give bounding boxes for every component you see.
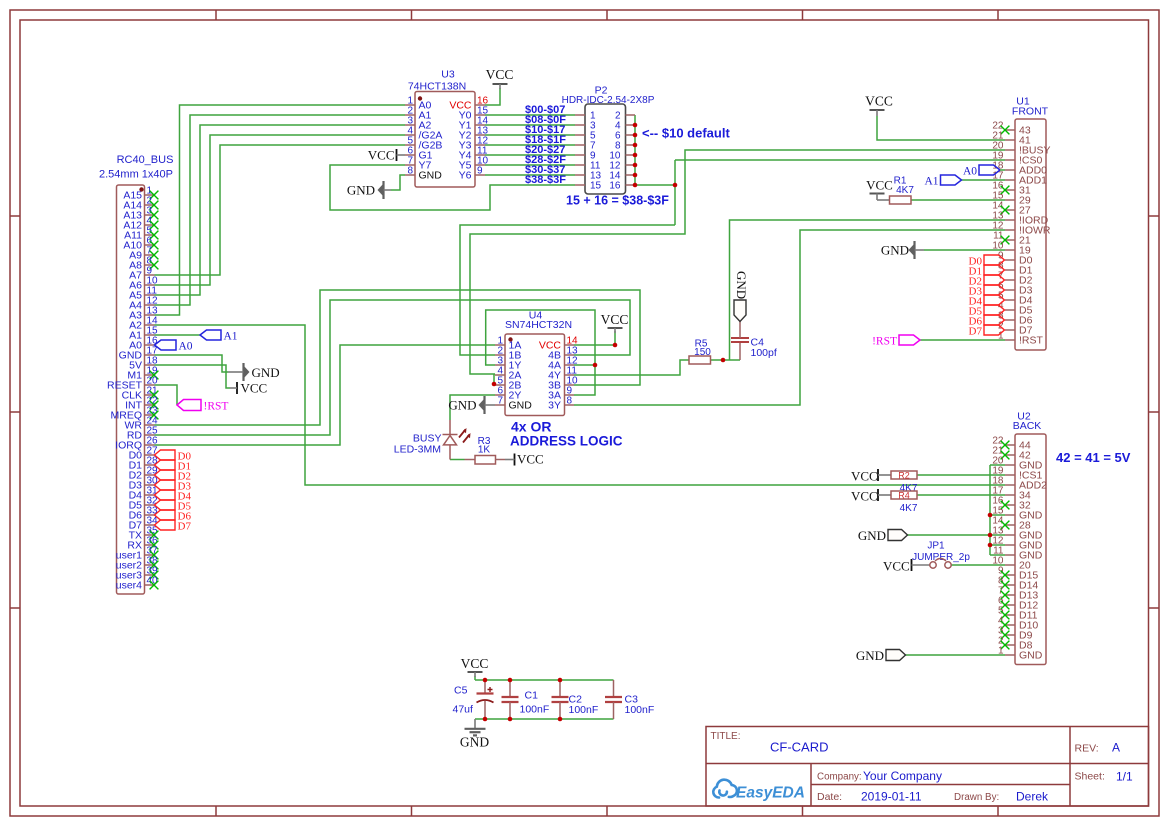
U2 pin 7 D13 — [1005, 594, 1015, 596]
svg-text:!RST: !RST — [1019, 335, 1044, 347]
RC40 pin 39 user3 — [145, 574, 155, 576]
svg-text:user4: user4 — [116, 580, 142, 592]
P2 pin 16 — [626, 184, 636, 186]
wire U2 GND bus stub pin12 — [990, 544, 1005, 546]
net flag D6 at RC40 — [155, 510, 176, 520]
svg-text:7: 7 — [497, 396, 503, 407]
svg-text:SN74HCT32N: SN74HCT32N — [505, 319, 572, 331]
svg-text:BACK: BACK — [1013, 420, 1042, 432]
U4 pin 6 2Y — [495, 394, 505, 396]
svg-text:!RST: !RST — [872, 336, 897, 348]
U2 pin 1 GND — [1005, 654, 1015, 656]
net flag D0 at RC40 — [155, 450, 176, 460]
U1 pin 8 D1 — [1005, 269, 1015, 271]
U2 pin 4 D10 — [1005, 624, 1015, 626]
RC40 pin 15 A1 — [145, 334, 155, 336]
svg-text:R2: R2 — [898, 470, 910, 480]
U3 pin 14 Y1 — [475, 124, 485, 126]
wire A7 to U3 /G2B — [155, 145, 406, 275]
U2 pin 10 20 — [1005, 564, 1015, 566]
svg-text:1K: 1K — [478, 445, 491, 456]
IC U4 SN74HCT32N body — [505, 334, 565, 416]
U1 pin 18 ADD0 — [1005, 169, 1015, 171]
U1 pin 17 ADD1 — [1005, 179, 1015, 181]
U1 pin 14 27 — [1005, 209, 1015, 211]
capacitor C2 100nF — [559, 680, 561, 697]
svg-text:Date:: Date: — [817, 791, 842, 803]
ground symbol at RC40 pin17 — [242, 363, 244, 381]
svg-text:$38-$3F: $38-$3F — [525, 174, 566, 186]
svg-text:RC40_BUS: RC40_BUS — [117, 154, 174, 166]
svg-text:VCC: VCC — [866, 178, 893, 193]
wire R5 to C4 node — [711, 359, 741, 361]
wire A5 to U3 A2 — [155, 125, 406, 295]
wire A1 to flag — [155, 334, 201, 336]
capacitor C4 100pf — [739, 342, 741, 360]
P2 pin 5 — [575, 134, 585, 136]
P2 pin 11 — [575, 164, 585, 166]
svg-text:16: 16 — [609, 181, 621, 192]
wire net !CS0 vertical at P2 — [674, 160, 676, 225]
RC40 pin 31 D4 — [145, 494, 155, 496]
RC40 pin 13 A3 — [145, 314, 155, 316]
power flag VCC at RC40 pin18 — [236, 382, 238, 394]
svg-text:U3: U3 — [441, 69, 455, 81]
U1 pin 6 D3 — [1005, 289, 1015, 291]
svg-text:VCC: VCC — [241, 381, 268, 396]
ground symbol at U4 pin7 — [483, 396, 485, 414]
connector J? RC40_BUS body — [117, 185, 145, 594]
U2 pin 3 D9 — [1005, 634, 1015, 636]
svg-text:GND: GND — [509, 400, 533, 412]
wire RC40 5V pin18 to VCC — [155, 365, 231, 388]
svg-text:100nF: 100nF — [569, 704, 599, 716]
net flag D7 at U1 — [984, 325, 1005, 335]
junction dots capacitor rails — [483, 678, 488, 683]
svg-text:Your Company: Your Company — [863, 769, 942, 783]
U4 pin 14 VCC — [565, 344, 575, 346]
svg-text:D7: D7 — [969, 326, 983, 338]
svg-text:VCC: VCC — [883, 559, 910, 574]
wire U3 Y2 to P2 pin5 ($10-$17) — [485, 134, 575, 136]
RC40 pin 12 A4 — [145, 304, 155, 306]
U3 pin 3 A2 — [405, 124, 415, 126]
U4 pin 8 3Y — [565, 404, 575, 406]
U1 pin 20 !BUSY — [1005, 149, 1015, 151]
U4 pin 13 4B — [565, 354, 575, 356]
RC40 pin 33 D6 — [145, 514, 155, 516]
P2 pin 10 — [626, 154, 636, 156]
svg-text:GND: GND — [460, 735, 489, 750]
wire VCC to U4 pin14 — [574, 331, 615, 345]
U3 pin 1 A0 — [405, 104, 415, 106]
net flag D4 at RC40 — [155, 490, 176, 500]
net flag D6 at U1 — [984, 315, 1005, 325]
ground net flag at U2 GND bus — [888, 530, 908, 541]
P2 pin 13 — [575, 174, 585, 176]
svg-text:4K7: 4K7 — [900, 503, 918, 514]
svg-text:8: 8 — [407, 166, 413, 177]
U3 pin 4 /G2A — [405, 134, 415, 136]
RC40 pin 32 D5 — [145, 504, 155, 506]
U1 pin 5 D4 — [1005, 299, 1015, 301]
wire U2 GND bus stub pin20 — [990, 464, 1005, 466]
RC40 pin 10 A6 — [145, 284, 155, 286]
wire U4 4Y to R5 — [574, 360, 689, 375]
net flag A1 at U1 pin17 — [941, 175, 962, 185]
svg-text:15 + 16 = $38-$3F: 15 + 16 = $38-$3F — [566, 194, 669, 208]
svg-text:1: 1 — [998, 646, 1004, 657]
svg-text:9: 9 — [477, 166, 483, 177]
wire U3 Y6 to P2 pin13 ($30-$37) — [485, 174, 575, 176]
wire RESET to !RST flag — [155, 385, 178, 405]
RC40 pin 21 CLK — [145, 394, 155, 396]
net flag A1 at RC40 pin15 — [200, 330, 221, 340]
P2 pin 9 — [575, 154, 585, 156]
wire net !CS0 to U1 pin19 — [675, 159, 1005, 161]
junction R5-C4 node — [721, 358, 726, 363]
wire U4 4A stub join — [574, 364, 595, 366]
power flag VCC at U3 pin6 G1 — [396, 149, 398, 161]
RC40 pin 35 TX — [145, 534, 155, 536]
net flag A0 at RC40 pin16 — [155, 340, 177, 350]
RC40 pin 26 IORQ — [145, 444, 155, 446]
svg-text:GND: GND — [856, 648, 884, 663]
svg-text:HDR-IDC-2.54-2X8P: HDR-IDC-2.54-2X8P — [562, 95, 655, 106]
RC40 pin 16 A0 — [145, 344, 155, 346]
connector U2 BACK body — [1015, 434, 1046, 665]
svg-text:GND: GND — [1019, 650, 1043, 662]
RC40 pin 5 A11 — [145, 234, 155, 236]
U1 pin 21 41 — [1005, 139, 1015, 141]
wire R4 to U2 pin17 — [917, 494, 1005, 496]
wire U2 GND bus stub pin11 — [990, 554, 1005, 556]
svg-text:100nF: 100nF — [520, 704, 550, 716]
wire capacitor bank top rail — [475, 679, 614, 681]
U3 pin 7 Y7 — [405, 164, 415, 166]
wire P2 right-side bus — [635, 115, 675, 185]
RC40 pin 2 A14 — [145, 204, 155, 206]
U4 pin 10 3B — [565, 384, 575, 386]
wire U2 GND bus vertical — [989, 465, 991, 555]
U2 pin 12 GND — [1005, 544, 1015, 546]
U3 pin 13 Y2 — [475, 134, 485, 136]
wire net !IORD C4 node to U1 pin13 — [730, 220, 1006, 360]
svg-text:ADDRESS LOGIC: ADDRESS LOGIC — [510, 434, 623, 449]
svg-text:100nF: 100nF — [625, 704, 655, 716]
svg-text:JP1: JP1 — [927, 541, 945, 552]
U2 pin 11 GND — [1005, 554, 1015, 556]
svg-text:C1: C1 — [525, 690, 539, 702]
wire U3 Y3 to P2 pin7 ($18-$1F) — [485, 144, 575, 146]
wire RC40 GND pin17 — [155, 355, 229, 372]
U1 pin 19 !CS0 — [1005, 159, 1015, 161]
wire A1 flag to U1 pin17 — [962, 179, 1006, 181]
wire R1 to U1 pin15 — [911, 199, 1005, 201]
U2 pin 13 GND — [1005, 534, 1015, 536]
svg-text:FRONT: FRONT — [1012, 106, 1049, 118]
svg-text:Drawn By:: Drawn By: — [954, 792, 999, 803]
svg-text:2.54mm 1x40P: 2.54mm 1x40P — [99, 169, 173, 181]
svg-text:4x OR: 4x OR — [511, 419, 551, 435]
junction at P2 pin16 net !CS0 — [673, 183, 678, 188]
connector P2 HDR-IDC-2.54-2X8P body — [585, 104, 626, 194]
svg-text:8: 8 — [567, 396, 573, 407]
U4 pin 2 1B — [495, 354, 505, 356]
svg-text:TITLE:: TITLE: — [711, 731, 741, 742]
U3 pin 10 Y5 — [475, 164, 485, 166]
RC40 pin 24 WR — [145, 424, 155, 426]
RC40 pin 34 D7 — [145, 524, 155, 526]
U4 pin 12 4A — [565, 364, 575, 366]
svg-text:VCC: VCC — [517, 452, 544, 467]
RC40 pin 22 INT — [145, 404, 155, 406]
wire GND to U1 pin10 — [924, 249, 1005, 251]
wire U3 Y1 to P2 pin3 ($08-$0F) — [485, 124, 575, 126]
RC40 pin 25 RD — [145, 434, 155, 436]
wire U3 Y4 to P2 pin9 ($20-$27) — [485, 154, 575, 156]
U2 pin 8 D14 — [1005, 584, 1015, 586]
wire VCC to U3 pin16 — [485, 88, 500, 105]
P2 pin 2 — [626, 114, 636, 116]
P2 pin 3 — [575, 124, 585, 126]
net flag D2 at U1 — [984, 275, 1005, 285]
U1 pin 22 43 — [1005, 129, 1015, 131]
U1 pin 16 31 — [1005, 189, 1015, 191]
svg-text:Derek: Derek — [1016, 790, 1049, 804]
net flag D7 at RC40 — [155, 520, 176, 530]
U3 pin 11 Y4 — [475, 154, 485, 156]
RC40 pin 7 A9 — [145, 254, 155, 256]
svg-text:15: 15 — [590, 181, 602, 192]
RC40 pin 27 D0 — [145, 454, 155, 456]
net flag D0 at U1 — [984, 255, 1005, 265]
U4 pin 5 2B — [495, 384, 505, 386]
U3 pin 9 Y6 — [475, 174, 485, 176]
U1 pin 4 D5 — [1005, 309, 1015, 311]
net flag D2 at RC40 — [155, 470, 176, 480]
U3 pin 5 /G2B — [405, 144, 415, 146]
svg-text:100pf: 100pf — [751, 347, 777, 359]
wire net ADD2 from A2 to U2 pin18 — [155, 325, 1006, 485]
wire U3 Y5 to P2 pin11 ($28-$2F) — [485, 164, 575, 166]
U1 pin 10 19 — [1005, 249, 1015, 251]
U4 pin 7 GND — [495, 404, 505, 406]
RC40 pin 36 RX — [145, 544, 155, 546]
U3 pin 2 A1 — [405, 114, 415, 116]
net flag D3 at U1 — [984, 285, 1005, 295]
svg-text:VCC: VCC — [851, 489, 878, 504]
svg-text:Y6: Y6 — [459, 170, 472, 182]
ground net flag at C4 — [734, 300, 746, 322]
RC40 pin 4 A12 — [145, 224, 155, 226]
RC40 pin 18 5V — [145, 364, 155, 366]
U4 pin 11 4Y — [565, 374, 575, 376]
svg-text:CF-CARD: CF-CARD — [770, 740, 829, 755]
RC40 pin 3 A13 — [145, 214, 155, 216]
capacitor C5 47uf polarized — [484, 680, 486, 694]
U3 pin 6 G1 — [405, 154, 415, 156]
U2 pin 2 D8 — [1005, 644, 1015, 646]
svg-text:GND: GND — [881, 243, 909, 258]
net flag !RST at RC40 — [177, 400, 201, 411]
U2 pin 5 D11 — [1005, 614, 1015, 616]
P2 pin 15 — [575, 184, 585, 186]
junction U4 VCC node — [613, 343, 618, 348]
wire U4 2Y to LED anode — [450, 395, 495, 420]
RC40 pin 38 user2 — [145, 564, 155, 566]
RC40 pin 19 M1 — [145, 374, 155, 376]
RC40 pin 28 D1 — [145, 464, 155, 466]
svg-text:A1: A1 — [924, 176, 938, 188]
net flag A0 at U1 pin18 — [979, 165, 1000, 175]
U2 pin 15 GND — [1005, 514, 1015, 516]
wire VCC stem cap bank — [474, 676, 476, 680]
U4 pin1 marker — [508, 337, 512, 341]
border zone ticks left — [10, 215, 20, 217]
wire U4 1Y to 4A and 3A — [486, 310, 595, 395]
wire !RST flag to U1 pin1 — [920, 339, 1005, 341]
P2 pin 1 — [575, 114, 585, 116]
U1 pin 11 21 — [1005, 239, 1015, 241]
U1 pin 1 !RST — [1005, 339, 1015, 341]
P2 pin 4 — [626, 124, 636, 126]
RC40 pin 14 A2 — [145, 324, 155, 326]
RC40 pin 20 RESET — [145, 384, 155, 386]
U2 pin 14 28 — [1005, 524, 1015, 526]
U2 pin 6 D12 — [1005, 604, 1015, 606]
border zone ticks right — [1149, 215, 1160, 217]
svg-text:A: A — [1112, 741, 1120, 755]
svg-text:R4: R4 — [898, 490, 910, 500]
wire JP1 to U2 pin10 — [952, 564, 1006, 566]
svg-text:47uf: 47uf — [453, 704, 474, 716]
U3 pin 15 Y0 — [475, 114, 485, 116]
wire U3 Y0 to P2 pin1 ($00-$07) — [485, 114, 575, 116]
svg-text:!RST: !RST — [204, 401, 229, 413]
ground net flag at U2 pin1 — [886, 650, 906, 661]
svg-text:A0: A0 — [963, 166, 977, 178]
wire net !BUSY U1 pin20 to U4 2A/2B — [470, 150, 1005, 374]
junction dots U2 GND bus — [988, 513, 993, 518]
U2 pin 9 D15 — [1005, 574, 1015, 576]
svg-text:LED-3MM: LED-3MM — [394, 444, 441, 456]
svg-text:<-- $10 default: <-- $10 default — [642, 126, 730, 141]
svg-text:VCC: VCC — [368, 148, 395, 163]
svg-text:REV:: REV: — [1075, 743, 1099, 755]
svg-text:42 = 41 = 5V: 42 = 41 = 5V — [1056, 450, 1131, 465]
svg-text:GND: GND — [347, 183, 375, 198]
RC40 pin 40 user4 — [145, 584, 155, 586]
RC40_BUS pin1 marker — [139, 187, 143, 191]
connector U1 FRONT body — [1015, 119, 1046, 350]
svg-text:Company:: Company: — [817, 772, 862, 783]
U2 pin 19 !CS1 — [1005, 474, 1015, 476]
U2 pin 16 32 — [1005, 504, 1015, 506]
net flag D1 at RC40 — [155, 460, 176, 470]
U2 pin 21 42 — [1005, 454, 1015, 456]
RC40 pin 1 A15 — [145, 194, 155, 196]
svg-text:GND: GND — [734, 271, 749, 299]
RC40 pin 29 D2 — [145, 474, 155, 476]
svg-text:VCC: VCC — [601, 312, 629, 327]
capacitor C1 100nF — [509, 680, 511, 697]
RC40 pin 23 MREQ — [145, 414, 155, 416]
svg-text:A0: A0 — [179, 341, 193, 353]
U4 pin 9 3A — [565, 394, 575, 396]
RC40 pin 11 A5 — [145, 294, 155, 296]
RC40 pin 17 GND — [145, 354, 155, 356]
wire R2 to U2 pin19 — [917, 474, 1005, 476]
capacitor C3 100nF — [613, 680, 615, 697]
U1 pin 3 D6 — [1005, 319, 1015, 321]
wire U2 GND bus stub pin13 — [990, 534, 1005, 536]
svg-text:VCC: VCC — [486, 67, 514, 82]
wire capacitor bank bottom rail — [475, 718, 614, 720]
svg-text:GND: GND — [252, 365, 280, 380]
U1 pin 2 D7 — [1005, 329, 1015, 331]
junction U4 4A node — [593, 363, 598, 368]
wire A3 to U3 A0 — [155, 105, 406, 315]
power flag VCC at R3 — [514, 454, 516, 466]
IC U3 74HCT138N body — [415, 92, 475, 188]
svg-text:C5: C5 — [454, 685, 468, 697]
wire VCC to U1 pin21 — [877, 116, 1005, 140]
border zone ticks top — [215, 10, 217, 20]
svg-text:40: 40 — [147, 576, 159, 587]
RC40 pin 6 A10 — [145, 244, 155, 246]
RC40 pin 8 A8 — [145, 264, 155, 266]
wire WR to U4 pin10 3B — [155, 290, 641, 425]
U2 pin 18 ADD2 — [1005, 484, 1015, 486]
RC40 pin 9 A7 — [145, 274, 155, 276]
svg-text:A1: A1 — [224, 331, 238, 343]
svg-text:GND: GND — [858, 528, 886, 543]
RC40 pin 37 user1 — [145, 554, 155, 556]
ground symbol at U1 pin10 — [913, 241, 915, 259]
P2 pin 8 — [626, 144, 636, 146]
net flag !RST at U1 pin1 — [899, 335, 920, 345]
wire A6 to U3 /G2A — [155, 135, 406, 285]
border zone ticks bottom — [215, 806, 217, 816]
svg-text:2019-01-11: 2019-01-11 — [861, 790, 922, 804]
junction U4 2B node — [492, 382, 497, 387]
svg-text:74HCT138N: 74HCT138N — [408, 81, 466, 93]
P2 pin 6 — [626, 134, 636, 136]
wire A4 to U3 A1 — [155, 115, 406, 305]
net flag D1 at U1 — [984, 265, 1005, 275]
U2 pin 20 GND — [1005, 464, 1015, 466]
svg-text:EasyEDA: EasyEDA — [736, 785, 805, 802]
net flag D3 at RC40 — [155, 480, 176, 490]
wire IORQ to U4 pin1 1A — [155, 345, 496, 445]
LED BUSY LED-3MM — [449, 420, 451, 435]
U3 pin 8 GND — [405, 174, 415, 176]
U2 pin 22 44 — [1005, 444, 1015, 446]
svg-text:3Y: 3Y — [548, 400, 561, 412]
net flag D5 at U1 — [984, 305, 1005, 315]
U4 pin 4 2A — [495, 374, 505, 376]
wire U4 3Y to U1 pin12 !IOWR — [574, 230, 1005, 405]
wire GND flag to U2 GND bus — [908, 534, 991, 536]
U4 pin 3 1Y — [495, 364, 505, 366]
wire GND flag to U2 pin1 — [906, 654, 1006, 656]
U1 pin 7 D2 — [1005, 279, 1015, 281]
P2 bus junction dots — [633, 123, 638, 128]
net flag D5 at RC40 — [155, 500, 176, 510]
svg-text:VCC: VCC — [851, 469, 878, 484]
U4 pin 1 1A — [495, 344, 505, 346]
